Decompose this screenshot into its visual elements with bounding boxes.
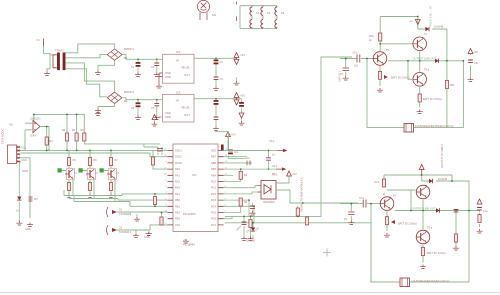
resistor 1 (45, 137, 48, 145)
bridge B2 (107, 92, 122, 103)
capacitor (electrolytic) 4 (214, 100, 219, 105)
wire 12 (215, 99, 217, 127)
wire 37 (224, 206, 255, 223)
ground 14 (16, 221, 22, 225)
pin/lead 10 (247, 161, 250, 166)
svg-text:C11: C11 (474, 62, 479, 65)
coil arcs (250, 7, 277, 28)
svg-text:B250C1: B250C1 (124, 90, 135, 94)
resistor 13 (239, 198, 242, 206)
diode 2 (251, 228, 255, 232)
svg-text:(a): (a) (272, 154, 275, 157)
wire 33 (224, 174, 234, 176)
op-amp IC4 (33, 121, 40, 133)
ground 19 (133, 234, 139, 238)
wire junction 23 (306, 222, 308, 224)
wire junction 25 (243, 216, 245, 218)
capacitor 3 (154, 103, 159, 105)
regulator IC3 box (163, 95, 195, 123)
svg-text:C6: C6 (151, 106, 155, 110)
supply symbol 1 (234, 53, 239, 58)
ground 18 (134, 217, 140, 221)
W2 to bottom loop (225, 223, 371, 282)
wire junction 28 (417, 16, 419, 18)
test pad 2 (79, 168, 83, 172)
svg-text:+5V: +5V (240, 53, 245, 57)
wire junction 42 (370, 203, 372, 205)
W3 opto to bottom amp input (290, 202, 358, 204)
resistor 6 (67, 158, 70, 166)
wire junction 26 (250, 216, 252, 218)
wire junction 22 (297, 216, 299, 218)
capacitor 5 (266, 158, 271, 160)
left resistor (382, 179, 385, 187)
svg-text:+5V: +5V (474, 51, 479, 54)
svg-text:GND: GND (22, 169, 28, 173)
svg-text:T8: T8 (393, 195, 397, 198)
pin/lead 13 (343, 68, 350, 70)
svg-text:T1: T1 (74, 172, 78, 175)
wire junction 27 (252, 222, 254, 224)
resistor 7 (67, 183, 70, 191)
svg-text:LM311N: LM311N (30, 117, 40, 121)
resistor R15 (454, 234, 457, 242)
resistor 14 (296, 208, 299, 216)
cap column near IC top right (215, 132, 247, 159)
svg-text:C1: C1 (131, 65, 135, 69)
resistor 5 (151, 157, 154, 165)
svg-text:GND: GND (165, 115, 171, 119)
wire junction 13 (66, 150, 68, 152)
svg-text:10u: 10u (354, 65, 359, 68)
component body 1 (57, 53, 60, 71)
svg-text:1N4148: 1N4148 (246, 240, 255, 243)
ground 4 (135, 73, 141, 77)
transistor T5 (373, 52, 387, 66)
svg-text:K3: K3 (281, 11, 285, 15)
power arrow (415, 20, 420, 25)
ground 2 (95, 71, 101, 75)
wire 36 (224, 198, 250, 216)
svg-text:F1: F1 (37, 38, 41, 42)
wire 38 (224, 207, 241, 213)
resistor 3 (75, 133, 78, 141)
diode 1 (17, 197, 21, 201)
ground 32 (384, 233, 390, 237)
QL2 emitter resistor + flag (385, 217, 388, 225)
right bypass col (468, 49, 473, 54)
svg-text:TRAF1: TRAF1 (55, 49, 64, 53)
svg-text:RA1: RA1 (175, 174, 180, 177)
capacitor 2 (214, 77, 219, 79)
pin/lead 4 (236, 58, 238, 60)
wire 39 (224, 216, 233, 218)
wire junction 35 (345, 58, 347, 60)
ground 30 (417, 110, 423, 114)
svg-text:LOUDSPEAKER 8OHM 0,3W (a): LOUDSPEAKER 8OHM 0,3W (a) (415, 124, 453, 128)
wire junction 34 (366, 58, 368, 60)
svg-text:SIGNAL TO AMP MODULES: SIGNAL TO AMP MODULES (300, 177, 304, 212)
capacitor (electrolytic) 1 (136, 62, 141, 67)
transistor cells (58, 150, 120, 197)
svg-text:R7: R7 (115, 159, 119, 162)
capacitor 4 (214, 117, 219, 119)
svg-text:OSC2: OSC2 (175, 156, 182, 159)
wire junction 14 (76, 150, 78, 152)
capacitor 6 (242, 222, 247, 224)
svg-text:R2: R2 (62, 129, 66, 132)
svg-text:LOUDSPEAKER 8OHM 0,3W (a): LOUDSPEAKER 8OHM 0,3W (a) (411, 279, 449, 283)
wire junction 20 (253, 205, 255, 207)
wire 31 (268, 151, 270, 170)
svg-text:K2: K2 (267, 11, 271, 15)
power arrow (419, 165, 424, 170)
svg-text:OUTPUT LINE OUT: OUTPUT LINE OUT (412, 207, 436, 211)
wire junction 6 (215, 98, 217, 100)
svg-text:S2: S2 (119, 226, 123, 230)
svg-text:RB1: RB1 (175, 205, 180, 208)
svg-text:VSS: VSS (175, 224, 180, 227)
svg-text:IC1: IC1 (183, 239, 188, 243)
svg-text:1: 1 (165, 180, 167, 182)
wire 14 (241, 118, 243, 121)
svg-text:BATT 50 1.5V(a): BATT 50 1.5V(a) (398, 223, 417, 226)
wire 25 (224, 137, 229, 151)
svg-text:TASTER 2: TASTER 2 (119, 230, 132, 234)
wire 40 (276, 176, 290, 203)
test pad 1 (58, 168, 62, 172)
wire junction 38 (422, 210, 424, 212)
speaker (400, 278, 410, 287)
ground 21 (183, 239, 189, 243)
svg-text:RC2: RC2 (211, 193, 217, 196)
ground 36 (477, 229, 483, 233)
svg-text:VDD: VDD (211, 150, 216, 153)
svg-text:RB5: RB5 (211, 168, 216, 171)
wire 2 (49, 55, 51, 69)
wire junction 9 (33, 114, 35, 116)
capacitor 10 (477, 199, 482, 204)
supply symbol 8 (287, 171, 292, 176)
svg-text:GND: GND (21, 158, 27, 162)
wire junction 1 (137, 58, 139, 60)
taster flags (107, 207, 168, 235)
svg-text:R5: R5 (73, 159, 77, 162)
resistor 12 (239, 171, 242, 179)
wire junction 31 (407, 60, 409, 62)
wire junction 41 (468, 210, 470, 212)
svg-text:+5V: +5V (231, 133, 236, 137)
svg-text:RB3: RB3 (175, 218, 180, 221)
svg-text:1k: 1k (16, 210, 19, 213)
svg-text:RC1: RC1 (211, 187, 217, 190)
supply symbol 4 (234, 100, 239, 105)
supply symbol 2 (234, 60, 239, 65)
svg-text:P1: P1 (340, 73, 344, 76)
wire junction 32 (446, 60, 448, 62)
resistors right of IC (224, 169, 277, 181)
resistors on the wires (297, 206, 299, 208)
pin/lead 14 (363, 200, 366, 208)
svg-text:M1: M1 (212, 13, 216, 17)
reg row 1 input (122, 55, 162, 60)
svg-text:RA4: RA4 (175, 193, 180, 196)
svg-text:RB6: RB6 (211, 162, 216, 165)
ground 5 (154, 73, 160, 77)
wire 30 (224, 162, 253, 164)
svg-text:B250C1: B250C1 (124, 47, 135, 51)
svg-text:IN: IN (176, 59, 179, 63)
wire 8 (236, 77, 238, 81)
svg-text:IC3: IC3 (176, 91, 181, 95)
diode (429, 179, 433, 183)
svg-text:GND: GND (165, 71, 171, 75)
wire 24 (154, 120, 156, 123)
svg-text:R4: R4 (81, 129, 85, 132)
secondary wires (66, 44, 115, 97)
svg-text:+5V: +5V (240, 94, 245, 98)
wire junction 36 (421, 174, 423, 176)
ground 12 (239, 121, 245, 125)
wire 21 (117, 211, 168, 213)
transistor T9 (416, 230, 430, 244)
svg-text:OUT: OUT (184, 113, 190, 117)
transistor T3 (107, 169, 117, 179)
svg-text:BATT 50 1.5V(a): BATT 50 1.5V(a) (427, 252, 446, 255)
svg-text:RA2: RA2 (175, 181, 180, 184)
pin/lead 6 (157, 149, 163, 152)
capacitor (electrolytic) 6 (228, 150, 233, 155)
wire junction 29 (379, 43, 381, 45)
svg-text:1k: 1k (369, 39, 372, 42)
svg-text:R9: R9 (244, 201, 248, 204)
ground 27 (250, 211, 256, 215)
wire 10 (138, 100, 157, 116)
svg-text:R1: R1 (50, 139, 54, 143)
svg-text:1N4148: 1N4148 (434, 25, 444, 29)
lamp/motor M1 (197, 0, 209, 20)
transistor T2 (86, 169, 96, 179)
ground 16 (87, 194, 93, 198)
wire junction 37 (451, 180, 453, 182)
svg-text:IC2: IC2 (176, 50, 181, 54)
QL emitter resistor + flag (378, 71, 381, 79)
pin/lead 1 (53, 55, 57, 68)
wire junction 40 (455, 210, 457, 212)
svg-text:C5: C5 (131, 106, 135, 110)
svg-text:RA3: RA3 (175, 187, 180, 190)
net flag 1 (277, 149, 287, 152)
transistor T1 (65, 169, 75, 179)
svg-text:2: 2 (225, 223, 227, 225)
ground 3 (95, 109, 101, 113)
component body 3 (221, 145, 224, 151)
wire 3 (98, 104, 115, 109)
svg-text:IC1: IC1 (192, 173, 197, 177)
wire junction 21 (240, 168, 242, 170)
svg-text:RB2: RB2 (175, 212, 180, 215)
svg-text:IN: IN (176, 99, 179, 103)
svg-text:GND: GND (144, 236, 150, 239)
svg-text:+5V: +5V (158, 115, 163, 119)
svg-text:R10: R10 (369, 35, 374, 38)
capacitor (electrolytic) 2 (214, 60, 219, 65)
ground 23 (152, 122, 158, 126)
svg-text:1k: 1k (247, 157, 250, 160)
svg-text:2: 2 (165, 186, 167, 188)
svg-text:S1: S1 (119, 208, 123, 212)
svg-text:MCLR: MCLR (175, 162, 182, 165)
svg-text:C2: C2 (151, 65, 155, 69)
capacitor 1 (154, 63, 159, 65)
resistor 16 (249, 220, 252, 228)
net flag 2 (276, 167, 286, 170)
wire junction r13a (154, 193, 156, 195)
svg-text:PLUS 4,5V ... 9V: PLUS 4,5V ... 9V (429, 5, 433, 26)
ground 17 (108, 194, 114, 198)
svg-text:OSC1: OSC1 (175, 150, 182, 153)
svg-text:RB7: RB7 (211, 156, 216, 159)
svg-text:X2-1: X2-1 (269, 139, 275, 143)
resistor 4 (83, 133, 86, 141)
svg-text:4MHz: 4MHz (236, 224, 243, 231)
ground 11 (213, 127, 219, 131)
svg-text:RC4: RC4 (211, 205, 217, 208)
svg-text:RC5: RC5 (211, 212, 217, 215)
wire 29 (224, 156, 248, 158)
cap left of block (252, 203, 254, 211)
wire junction 4 (137, 99, 139, 101)
pin/lead 8 (107, 207, 109, 217)
wire 23 (130, 212, 137, 234)
svg-text:PIC16F84: PIC16F84 (183, 212, 196, 216)
diode on top (425, 27, 429, 31)
svg-text:GND: GND (25, 228, 31, 231)
svg-text:GND: GND (165, 111, 171, 115)
wire junction 3 (215, 57, 217, 59)
wire junction r14a (161, 212, 163, 214)
resistor R13 (154, 194, 156, 206)
ground 35 (453, 246, 459, 250)
svg-text:RC3: RC3 (211, 199, 217, 202)
pin/lead 7 (29, 197, 33, 201)
svg-text:C4: C4 (220, 77, 224, 81)
resistor 11 (109, 183, 112, 191)
three LED/diode columns (65, 133, 68, 141)
svg-text:T3: T3 (116, 172, 120, 175)
supply above IC (152, 115, 157, 120)
crystal block under W1 (244, 216, 251, 236)
wire junction 24 (302, 202, 304, 204)
top rail for LED resistors (34, 114, 85, 133)
svg-text:OK1: OK1 (272, 173, 278, 177)
svg-text:RB4: RB4 (211, 174, 216, 177)
svg-text:R12: R12 (375, 181, 380, 184)
svg-text:4: 4 (165, 161, 167, 163)
W1 to top amp (225, 57, 352, 216)
bridge B1 (107, 49, 122, 60)
wire 28 (266, 150, 278, 152)
svg-text:CON AC/DC: CON AC/DC (1, 128, 5, 144)
resistor 9 (88, 183, 91, 191)
wire junction 7 (46, 126, 48, 128)
svg-text:+U: +U (409, 20, 412, 23)
svg-text:IN1: IN1 (9, 124, 14, 127)
svg-text:9: 9 (165, 217, 167, 219)
wire junction 8 (48, 150, 50, 152)
capacitor 8 (468, 60, 473, 62)
wire junction 18 (268, 168, 270, 170)
svg-text:T9 a: T9 a (427, 227, 433, 230)
ground 20 (146, 232, 152, 236)
inductor bank K1 (240, 6, 277, 29)
svg-text:R8: R8 (244, 174, 248, 177)
regulator IC2 box (163, 54, 195, 83)
svg-text:RB0: RB0 (175, 199, 180, 202)
svg-text:IC4A: IC4A (30, 134, 36, 138)
svg-text:RA0: RA0 (175, 168, 180, 171)
reg row 1 output (194, 57, 237, 59)
ground 31 (468, 78, 474, 82)
wire junction 16 (110, 150, 112, 152)
resistor 15 (305, 217, 308, 225)
ground 13 (27, 223, 33, 227)
svg-text:C14: C14 (359, 196, 364, 200)
connector X1 (8, 145, 21, 164)
supply symbol 5 (239, 113, 244, 118)
wire 22 (117, 225, 168, 230)
capacitor 9 (454, 210, 459, 212)
ground 33 (348, 221, 354, 225)
svg-text:R6: R6 (94, 159, 98, 162)
pin/lead 3 (159, 73, 163, 84)
svg-text:T2: T2 (95, 172, 99, 175)
svg-text:K1: K1 (256, 11, 260, 15)
power arrow above IC right (226, 132, 231, 137)
gnd bottom-left of IC (146, 232, 152, 236)
transistor T7 (416, 185, 430, 199)
wire junction 19 (248, 199, 250, 201)
pin/lead 15 (348, 212, 354, 214)
wire junction 5 (156, 99, 158, 101)
pin/lead 2 (52, 55, 54, 68)
transformer TR1 (53, 53, 66, 71)
svg-text:1: 1 (233, 1, 235, 5)
svg-text:R11: R11 (450, 84, 455, 87)
cell 1 (59, 150, 69, 193)
wire 35 (224, 192, 258, 194)
resistor 10 (109, 158, 112, 166)
ground 9 (135, 116, 141, 120)
wire 16 (67, 142, 160, 151)
diode 6 (436, 208, 440, 212)
nested loop wires under cells (64, 179, 168, 207)
svg-text:T6 a: T6 a (424, 69, 430, 72)
transistor T8 (380, 197, 394, 211)
wire junction 10 (66, 114, 68, 116)
svg-text:+5V: +5V (292, 172, 297, 176)
svg-text:C13: C13 (352, 51, 357, 55)
origin cross (323, 249, 331, 257)
diode 4 (435, 59, 439, 63)
ground 15 (66, 194, 72, 198)
wire junction 43 (350, 203, 352, 205)
net flags right of IC (224, 150, 267, 152)
svg-text:1N4148: 1N4148 (438, 177, 448, 181)
fuse F1 (43, 39, 45, 47)
pin/lead 9 (107, 225, 109, 235)
ground under transformer (44, 72, 50, 76)
